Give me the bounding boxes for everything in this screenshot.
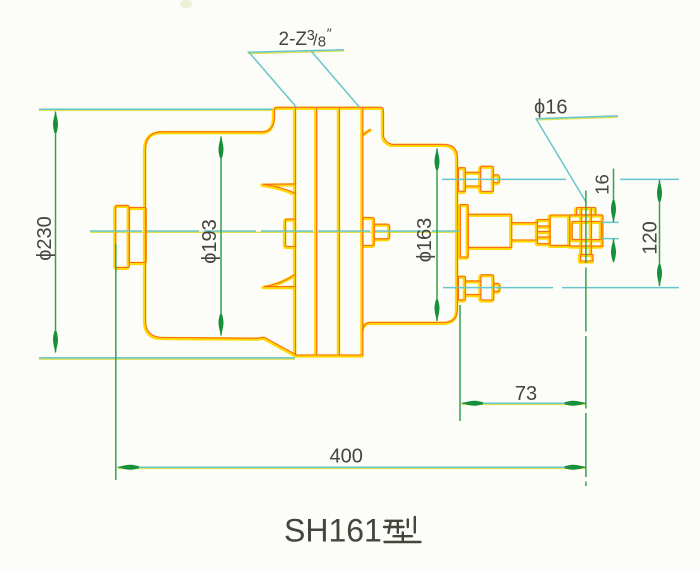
wire fringe: phi16 underline (536, 117, 619, 120)
wire fringe: 73 dim line (462, 404, 587, 406)
wire fringe: 400 dim line (118, 468, 587, 470)
73 left extension line (459, 305, 461, 421)
arrow phi163 top (434, 148, 439, 170)
16 dim tick lower (602, 238, 619, 240)
svg-text:ϕ230: ϕ230 (34, 216, 56, 261)
400 left extension line (115, 244, 117, 481)
arrow phi193 top (218, 136, 223, 158)
clevis pin centerline (585, 191, 587, 487)
svg-text:2-Z: 2-Z (279, 29, 308, 50)
arrow 16 upper (down) (611, 200, 616, 222)
wire fringe: phi230 bottom extension (39, 358, 295, 360)
arrow phi230 top (53, 111, 58, 133)
2-Z leader 2 (311, 51, 359, 107)
2-Z leader 1 (249, 52, 297, 107)
arrow phi230 bottom (53, 331, 58, 353)
16 dim line upper part (613, 169, 615, 223)
120 dim line (659, 180, 661, 286)
wire fringe: 2-Z underline (248, 51, 344, 54)
svg-text:ϕ193: ϕ193 (199, 219, 221, 264)
16 dim line lower part (613, 239, 615, 263)
upper bolt centerline extension (620, 178, 679, 180)
arrow phi163 bottom (434, 300, 439, 322)
arrow 16 lower (up) (611, 239, 616, 261)
svg-text:73: 73 (515, 383, 537, 405)
73 dim line (462, 402, 587, 404)
green dimension lines (56, 112, 660, 487)
svg-text:120: 120 (640, 221, 662, 254)
yellow fringe offsets for teal lines (39, 51, 618, 469)
wire fringe: phi230 top extension (39, 110, 273, 112)
arrow phi193 bottom (218, 314, 223, 336)
phi16 underline (536, 116, 619, 119)
arrow 400 right (565, 465, 587, 470)
svg-text:400: 400 (330, 446, 363, 468)
lower bolt centerline (443, 287, 553, 289)
svg-text:16: 16 (592, 174, 613, 195)
body drawing: orange over-stroke (116, 107, 603, 355)
body drawing: yellow under-stroke (115, 108, 602, 356)
arrow 73 right (565, 401, 587, 406)
svg-text:ϕ16: ϕ16 (534, 97, 567, 119)
svg-text:″: ″ (327, 25, 332, 41)
2-Z underline (248, 50, 344, 53)
phi193 dim line (220, 137, 222, 336)
phi230 bottom extension line (39, 357, 295, 359)
wire fringe: main centerline (90, 231, 460, 233)
upper bolt centerline (442, 178, 566, 180)
faint scan smudge (180, 0, 192, 8)
16 dim tick upper (602, 221, 619, 223)
dimension arrows (53, 111, 662, 470)
phi163 dim line (436, 149, 438, 322)
main centerline (90, 230, 460, 232)
arrow 73 left (461, 401, 483, 406)
arrow 120 bottom (657, 264, 662, 286)
arrow 120 top (657, 180, 662, 202)
svg-text:ϕ163: ϕ163 (414, 218, 436, 263)
lower bolt centerline extension (562, 287, 679, 289)
phi230 top extension line (39, 108, 273, 110)
phi16 leader (536, 119, 586, 203)
svg-text:SH161: SH161 (284, 513, 382, 549)
400 dim line (118, 466, 587, 468)
arrow 400 left (117, 465, 139, 470)
teal lines (39, 50, 679, 468)
phi230 dim line (55, 112, 57, 353)
title CJK glyph (drawn) (384, 517, 421, 542)
svg-text:8: 8 (318, 33, 326, 50)
